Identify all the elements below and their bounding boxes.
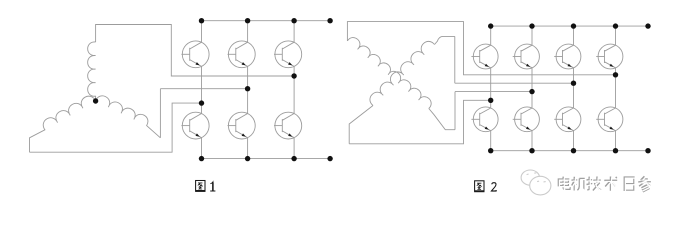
wire col1 collector top fig1 — [201, 21, 203, 43]
wire col2 midpoint fig2 — [531, 68, 533, 108]
junction bottom rail col1 fig1 — [199, 156, 204, 161]
watermark text 电机技术日参 — [558, 177, 571, 191]
junction top rail col1 fig2 — [488, 23, 493, 28]
wire col2 emitter bottom fig1 — [247, 138, 249, 159]
wire bottom supply rail fig2 — [491, 150, 648, 152]
transistor Q12 — [513, 107, 540, 132]
transistor Q9 — [554, 44, 581, 69]
wire col3 collector top fig2 — [573, 26, 575, 45]
junction top rail col1 fig1 — [199, 18, 204, 23]
wire col1 emitter bottom fig1 — [201, 138, 203, 159]
wire col1 emitter bottom fig2 — [490, 131, 492, 151]
terminal bottom rail fig1 — [327, 156, 332, 161]
wire phase TL to column 4 midpoint — [347, 22, 615, 75]
transistor Q13 — [554, 107, 581, 132]
wire col2 emitter bottom fig2 — [531, 131, 533, 151]
junction top rail col3 fig2 — [571, 23, 576, 28]
transistor Q5 — [228, 112, 256, 139]
wire phase TR vertical — [454, 36, 456, 83]
junction bottom rail col1 fig2 — [488, 148, 493, 153]
label 图 1 — [195, 181, 215, 192]
transistor Q14 — [596, 107, 623, 132]
wire phase BR to column 2 midpoint — [455, 91, 532, 93]
junction top rail col2 fig1 — [245, 18, 250, 23]
wire phase BL lead — [349, 106, 373, 144]
wire phase BR vertical — [454, 92, 456, 130]
wire col3 emitter bottom fig2 — [573, 131, 575, 151]
terminal bottom rail fig2 — [645, 148, 650, 153]
junction bottom rail col4 fig2 — [613, 148, 618, 153]
wire col3 midpoint fig1 — [293, 66, 295, 113]
wire col2 collector top fig2 — [531, 26, 533, 45]
wire col3 collector top fig1 — [293, 21, 295, 43]
node phase A midpoint col3 fig1 — [291, 73, 296, 78]
junction top rail col2 fig2 — [529, 23, 534, 28]
transistor Q1 — [181, 41, 209, 68]
wire phase A to column 3 midpoint — [96, 25, 295, 77]
wire phase B vertical — [159, 89, 161, 138]
winding TL-BR coil diagonal — [347, 38, 431, 109]
wire col1 midpoint fig2 — [490, 68, 492, 108]
winding B (lower-right coil) — [96, 96, 161, 138]
wire col4 collector top fig2 — [615, 26, 617, 45]
wire phase BL to column 1 midpoint — [349, 100, 491, 144]
wire phase C to column 1 midpoint — [30, 103, 202, 152]
transistor Q6 — [274, 112, 302, 139]
wire top supply rail fig1 — [202, 20, 331, 22]
wire phase TR lead — [435, 36, 455, 44]
node phase B midpoint col2 fig1 — [245, 86, 250, 91]
junction bottom rail col3 fig1 — [291, 156, 296, 161]
transistor Q3 — [274, 41, 302, 68]
wire top supply rail fig2 — [491, 25, 648, 27]
wire phase TR to column 3 midpoint — [455, 82, 574, 84]
junction bottom rail col2 fig1 — [245, 156, 250, 161]
label 图 2 — [474, 181, 497, 192]
junction top rail col4 fig2 — [613, 23, 618, 28]
wire bottom supply rail fig1 — [202, 158, 331, 160]
winding C (lower-left coil) — [30, 96, 96, 152]
winding A (vertical coil) — [88, 42, 96, 101]
terminal top rail fig2 — [645, 23, 650, 28]
terminal top rail fig1 — [327, 18, 332, 23]
wire col1 midpoint fig1 — [201, 66, 203, 113]
wire col2 collector top fig1 — [247, 21, 249, 43]
wire phase BR lead — [429, 109, 455, 130]
transistor Q8 — [513, 44, 540, 69]
transistor Q4 — [181, 112, 209, 139]
wire col3 emitter bottom fig1 — [293, 138, 295, 159]
wire phase B to column 2 midpoint — [160, 88, 247, 90]
wire col1 collector top fig2 — [490, 26, 492, 45]
node phase midpoint col2 fig2 — [529, 89, 534, 94]
wire col2 midpoint fig1 — [247, 66, 249, 113]
transistor Q7 — [471, 44, 498, 69]
junction bottom rail col2 fig2 — [529, 148, 534, 153]
junction bottom rail col3 fig2 — [571, 148, 576, 153]
transistor Q2 — [228, 41, 256, 68]
node phase midpoint col1 fig2 — [488, 98, 493, 103]
node phase C midpoint col1 fig1 — [199, 100, 204, 105]
node star point fig1 — [93, 98, 98, 103]
transistor Q10 — [596, 44, 623, 69]
wire col3 midpoint fig2 — [573, 68, 575, 108]
junction top rail col3 fig1 — [291, 18, 296, 23]
winding TR-BL coil diagonal — [370, 41, 435, 105]
wire col4 midpoint fig2 — [615, 68, 617, 108]
transistor Q11 — [471, 107, 498, 132]
node phase midpoint col4 fig2 — [613, 72, 618, 77]
watermark logo — [521, 170, 551, 195]
node phase midpoint col3 fig2 — [571, 81, 576, 86]
wire col4 emitter bottom fig2 — [615, 131, 617, 151]
